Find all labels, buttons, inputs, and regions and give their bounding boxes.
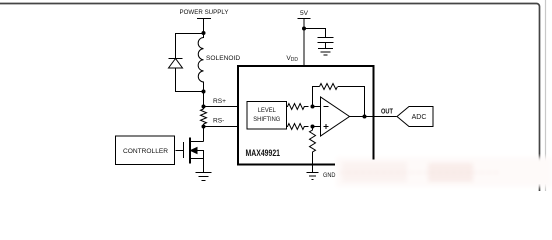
svg-text:RS-: RS-: [213, 118, 224, 125]
svg-text:VDD: VDD: [286, 55, 298, 63]
svg-text:ADC: ADC: [412, 114, 427, 121]
svg-text:MAX49921: MAX49921: [246, 148, 281, 158]
svg-text:RS+: RS+: [213, 98, 226, 105]
svg-text:POWER SUPPLY: POWER SUPPLY: [180, 9, 230, 16]
svg-text:OUT: OUT: [381, 109, 394, 116]
svg-text:CONTROLLER: CONTROLLER: [123, 148, 168, 155]
svg-text:SHIFTING: SHIFTING: [253, 116, 280, 123]
svg-text:SOLENOID: SOLENOID: [206, 55, 240, 62]
svg-text:GND: GND: [323, 172, 336, 179]
svg-text:LEVEL: LEVEL: [258, 107, 276, 114]
svg-text:5V: 5V: [300, 10, 309, 17]
